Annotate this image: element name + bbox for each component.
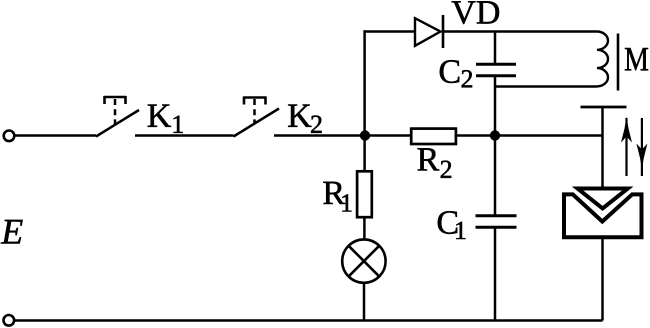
label E xyxy=(1,220,23,244)
capacitor C1 xyxy=(476,216,517,321)
wire coil bottom lead xyxy=(495,85,597,88)
wire node B down to C1 xyxy=(494,136,497,216)
capacitor C2 xyxy=(476,32,516,136)
bottom rail wire xyxy=(15,319,603,322)
label K1 xyxy=(148,105,183,133)
label R2 xyxy=(418,148,452,178)
label C1 xyxy=(438,211,466,239)
resistor R1 xyxy=(357,171,372,217)
label R1 xyxy=(323,182,351,212)
node B junction dot xyxy=(490,130,500,140)
wire vertical node A branch (top wire to R1) xyxy=(363,30,366,171)
diode VD xyxy=(415,15,443,48)
electromagnet frame (box with V notch) xyxy=(564,194,642,237)
wire K2 to node A xyxy=(274,134,366,137)
terminal T1 (top left) xyxy=(4,131,15,142)
wire lamp to bottom rail xyxy=(363,284,366,321)
label K2 xyxy=(288,105,321,133)
terminal T2 (bottom left) xyxy=(4,315,15,326)
motion arrow up xyxy=(621,117,632,177)
core bar of M xyxy=(617,34,620,91)
plunger rod xyxy=(601,108,604,187)
switch K2 xyxy=(234,97,280,137)
wire node B to plunger xyxy=(495,134,603,137)
switch K1 xyxy=(96,96,139,137)
wire diode to coil xyxy=(443,30,597,33)
node A junction dot xyxy=(360,130,370,140)
wire top rail to diode xyxy=(364,30,414,33)
resistor R2 xyxy=(411,129,456,144)
lamp HL xyxy=(342,239,385,282)
wire electromagnet to bottom rail xyxy=(601,237,604,320)
label VD xyxy=(452,1,499,24)
wire R1 to lamp xyxy=(363,217,366,240)
wire K1 to K2 xyxy=(135,134,234,137)
label C2 xyxy=(440,60,472,87)
wire T1 to K1 xyxy=(15,134,96,137)
label M xyxy=(625,48,648,70)
motion arrow down xyxy=(636,118,647,176)
armature bar xyxy=(581,106,627,109)
relay coil M xyxy=(597,32,608,87)
plunger tip triangle xyxy=(578,189,628,209)
wire node A to node B (through R2) xyxy=(365,134,495,137)
